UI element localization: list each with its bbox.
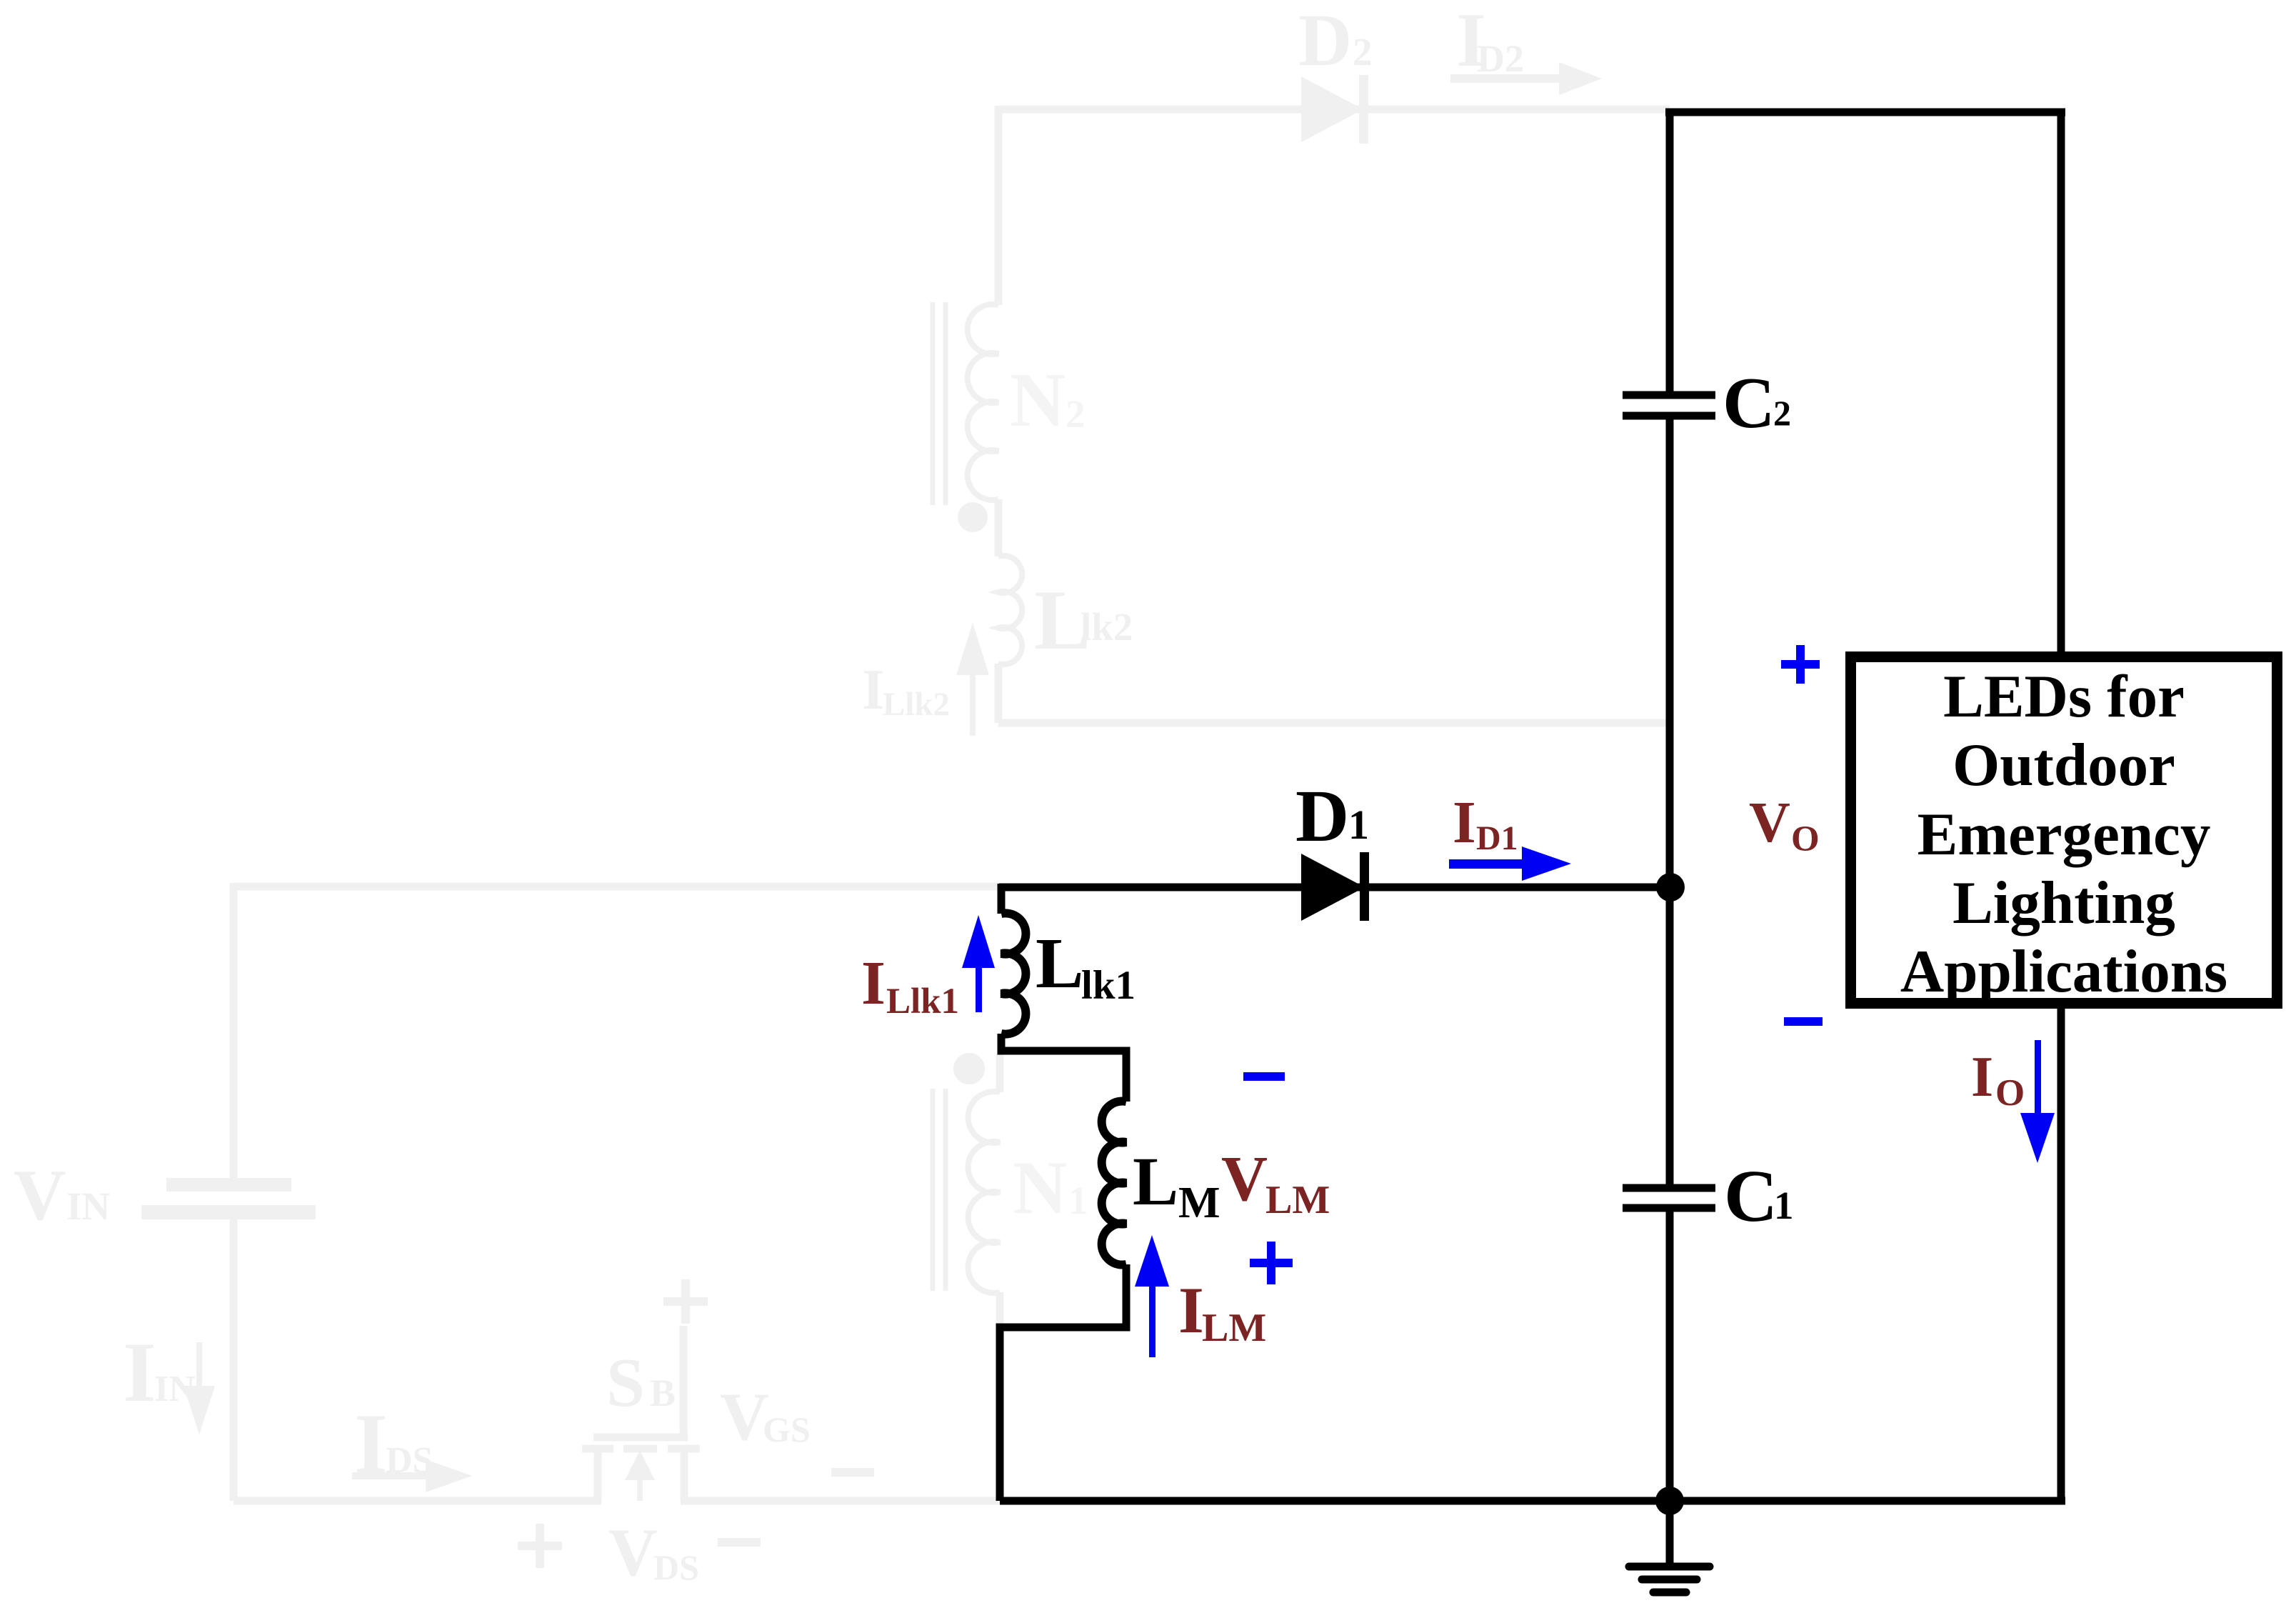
- wire: faded N2 top lead: [995, 106, 1003, 305]
- wire: top wire from C2 branch to right output branch: [1665, 109, 2065, 116]
- plus sign of faded VDS: [518, 1524, 562, 1568]
- wire: C2 branch upper segment: [1666, 109, 1674, 391]
- ground: [1629, 1501, 1710, 1592]
- svg-text:D1: D1: [1476, 819, 1518, 857]
- label IDS (faded): [354, 1396, 433, 1491]
- wire: faded input loop top wire (VIN+ to primary): [234, 883, 999, 891]
- svg-text:I: I: [1453, 789, 1476, 856]
- svg-text:IN: IN: [154, 1369, 196, 1409]
- svg-text:LM: LM: [1202, 1306, 1266, 1350]
- label D1 (diode designator): [1295, 775, 1369, 857]
- label VGS (faded): [720, 1379, 811, 1454]
- svg-text:I: I: [123, 1324, 156, 1419]
- svg-text:Llk2: Llk2: [883, 686, 950, 723]
- minus sign of faded VGS: [831, 1468, 874, 1477]
- plus sign of faded VGS: [663, 1279, 708, 1324]
- svg-text:1: 1: [1348, 801, 1369, 848]
- COLOR-LAYER: [861, 645, 2055, 1357]
- wire: LM bottom elbow down to bottom wire: [1000, 1264, 1126, 1501]
- svg-text:2: 2: [1773, 393, 1791, 433]
- label VO (output voltage, dark red): [1749, 791, 1820, 859]
- arrow: faded IIN current arrow: [184, 1342, 215, 1434]
- winding N1 (faded transformer primary): [968, 1092, 1000, 1293]
- wire: faded VIN top lead: [230, 883, 238, 1178]
- wire: Llk1 bottom elbow to LM top: [1001, 1034, 1126, 1102]
- svg-text:lk1: lk1: [1081, 963, 1136, 1008]
- svg-text:LEDs for: LEDs for: [1943, 663, 2185, 730]
- svg-text:1: 1: [1068, 1179, 1088, 1222]
- wire: faded secondary bottom wire from Llk2 to C1/C2 midpoint branch: [998, 719, 1670, 727]
- svg-text:I: I: [861, 948, 886, 1017]
- label N1 (faded winding): [1013, 1146, 1088, 1229]
- wire: middle branch from C2 to C1 through output node: [1666, 419, 1674, 1184]
- svg-text:2: 2: [1353, 30, 1373, 74]
- label ILlk2 (faded): [862, 659, 950, 723]
- svg-text:2: 2: [1066, 392, 1086, 436]
- label LM (magnetizing inductance): [1133, 1143, 1220, 1227]
- svg-text:IN: IN: [66, 1184, 110, 1228]
- wire: faded N2 to Llk2: [995, 499, 1003, 556]
- svg-text:GS: GS: [763, 1409, 811, 1449]
- diode D1: [1301, 852, 1369, 921]
- wire: faded bottom wire from VIN to switch SB: [234, 1497, 601, 1505]
- label VDS (faded): [608, 1514, 699, 1590]
- inductor Llk1 (primary leakage inductance): [1001, 913, 1026, 1034]
- svg-text:D2: D2: [1477, 37, 1524, 80]
- battery VIN (faded source plates): [141, 1178, 316, 1219]
- wire: faded bottom wire from switch SB to primary return: [681, 1497, 1000, 1505]
- label D2 (faded diode designator): [1298, 0, 1373, 81]
- arrow: ID1 current arrow (blue, right): [1449, 847, 1571, 881]
- arrow: faded ILlk2 current arrow: [956, 623, 989, 736]
- svg-text:I: I: [1971, 1046, 1993, 1109]
- label C2 (capacitor designator): [1723, 363, 1791, 444]
- wire: D1 row wire from Llk1 top to output node: [999, 884, 1670, 892]
- svg-text:V: V: [1221, 1144, 1268, 1214]
- wire: right output branch upper segment: [2057, 109, 2065, 661]
- node: output node dot at D1 cathode junction: [1656, 873, 1685, 902]
- node: faded phase dot of N1: [953, 1053, 985, 1084]
- svg-text:Applications: Applications: [1900, 938, 2227, 1005]
- svg-text:Llk1: Llk1: [886, 982, 959, 1022]
- wire: Llk1 top lead: [998, 884, 1006, 914]
- label ILlk1 (dark red): [861, 948, 959, 1022]
- label N2 (faded winding): [1010, 358, 1086, 443]
- svg-text:S: S: [606, 1344, 645, 1421]
- load box: LEDs for Outdoor Emergency Lighting Applications: [1851, 657, 2277, 1004]
- wire: bottom return wire to ground node: [1000, 1497, 2065, 1505]
- arrow: ILM current arrow (blue, up): [1135, 1235, 1169, 1357]
- transformer core bars beside N2 (faded): [933, 302, 946, 505]
- label IO (output current, dark red): [1971, 1046, 2025, 1114]
- label Llk1 (leakage inductance): [1036, 923, 1136, 1008]
- svg-text:V: V: [720, 1379, 769, 1454]
- label SB (faded switch designator): [606, 1344, 676, 1421]
- svg-text:D: D: [1295, 775, 1349, 857]
- wire: faded secondary top wire from N2 to C2 branch: [998, 106, 1670, 114]
- plus sign of VLM (blue): [1250, 1242, 1293, 1284]
- GRAY-LAYER: [14, 0, 1670, 1590]
- svg-text:DS: DS: [386, 1440, 433, 1481]
- svg-text:Emergency: Emergency: [1917, 801, 2211, 868]
- arrow: faded IDS current arrow: [352, 1459, 472, 1492]
- capacitor C1: [1623, 1188, 1715, 1208]
- svg-text:O: O: [1995, 1072, 2025, 1114]
- svg-text:Lighting: Lighting: [1952, 869, 2175, 937]
- svg-text:N: N: [1013, 1146, 1068, 1229]
- arrow: ILlk1 current arrow (blue, up): [962, 915, 995, 1012]
- node: faded phase dot of N2: [958, 502, 988, 532]
- svg-text:V: V: [608, 1514, 658, 1590]
- svg-text:V: V: [1749, 791, 1790, 854]
- label Llk2 (faded): [1034, 572, 1133, 667]
- transistor SB (faded MOSFET symbol): [582, 1326, 700, 1501]
- wire: right output branch lower segment: [2057, 1000, 2065, 1501]
- minus sign of faded VDS: [718, 1538, 761, 1547]
- inductor LM (magnetizing inductance): [1102, 1102, 1126, 1265]
- node: ground node dot on bottom wire: [1655, 1487, 1684, 1515]
- svg-text:V: V: [14, 1155, 66, 1236]
- svg-text:C: C: [1723, 363, 1775, 444]
- transformer core bars beside N1 (faded): [933, 1089, 946, 1291]
- minus sign of VLM (blue): [1243, 1072, 1285, 1081]
- wire: faded N1 top lead: [996, 1054, 1004, 1092]
- svg-text:I: I: [354, 1396, 388, 1491]
- svg-text:L: L: [1036, 923, 1083, 1003]
- label VLM (dark red): [1221, 1144, 1330, 1222]
- wire: faded N1 bottom lead: [996, 1292, 1004, 1329]
- winding N2 (faded transformer secondary): [968, 304, 998, 500]
- label IIN (faded): [123, 1324, 196, 1419]
- label ID1 (dark red): [1453, 789, 1518, 857]
- svg-text:B: B: [650, 1372, 676, 1414]
- label VIN (faded): [14, 1155, 110, 1236]
- svg-text:L: L: [1133, 1143, 1178, 1219]
- svg-text:C: C: [1724, 1155, 1778, 1237]
- plus sign of VO (blue): [1781, 645, 1820, 684]
- svg-text:Outdoor: Outdoor: [1952, 731, 2175, 799]
- svg-text:M: M: [1178, 1179, 1220, 1227]
- svg-text:LM: LM: [1265, 1178, 1330, 1222]
- diode D2 (faded): [1301, 75, 1368, 144]
- label C1 (capacitor designator): [1724, 1155, 1794, 1237]
- svg-text:D: D: [1298, 0, 1352, 81]
- label ILM (dark red): [1178, 1274, 1266, 1350]
- svg-text:1: 1: [1774, 1184, 1794, 1227]
- svg-text:O: O: [1791, 819, 1820, 859]
- wire: faded Llk2 bottom lead: [995, 664, 1003, 723]
- svg-text:lk2: lk2: [1081, 605, 1133, 649]
- minus sign of VO (blue): [1784, 1017, 1823, 1026]
- label ID2 (faded): [1456, 0, 1524, 83]
- arrow: faded ID2 current arrow: [1450, 62, 1602, 95]
- svg-text:I: I: [1178, 1274, 1204, 1347]
- BLACK-LAYER: [999, 109, 2277, 1592]
- inductor Llk2 (faded secondary leakage inductance): [998, 556, 1022, 664]
- wire: branch from C1 down to bottom wire: [1666, 1212, 1674, 1501]
- svg-text:DS: DS: [653, 1547, 699, 1587]
- wire: faded VIN bottom lead: [230, 1219, 238, 1501]
- capacitor C2: [1623, 395, 1715, 416]
- svg-text:I: I: [862, 659, 884, 721]
- svg-text:N: N: [1010, 358, 1066, 443]
- arrow: IO current arrow (blue, down): [2020, 1040, 2055, 1163]
